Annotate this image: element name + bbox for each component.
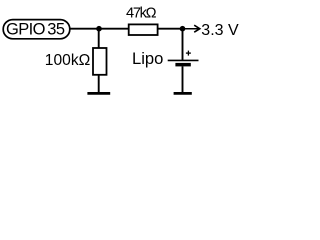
arrow head to 3.3V net	[194, 25, 200, 32]
wire resistor R1 to junction B	[158, 28, 183, 30]
svg-text:3.3 V: 3.3 V	[201, 22, 239, 39]
wire junction A down to resistor R2	[98, 29, 100, 48]
node B (junction dot)	[180, 26, 186, 32]
ground (left)	[87, 92, 110, 95]
wire battery to ground	[182, 66, 184, 93]
battery BT1 positive plate (long)	[168, 59, 199, 61]
resistor R1 47k (horizontal box)	[129, 24, 158, 35]
wire resistor R2 to ground	[98, 75, 100, 93]
svg-text:100kΩ: 100kΩ	[45, 52, 90, 69]
wire junction B down to battery	[182, 29, 184, 60]
svg-text:Lipo: Lipo	[132, 49, 163, 68]
node GPIO35 (pin label stadium)	[3, 20, 70, 39]
wire junction A to resistor R1	[99, 28, 129, 30]
resistor R2 100k (vertical box)	[93, 48, 107, 75]
battery BT1 plus sign	[186, 52, 191, 54]
wire GPIO35 to junction A	[70, 28, 99, 30]
battery BT1 negative plate (short thick)	[175, 63, 190, 67]
svg-text:GPIO35: GPIO35	[6, 21, 65, 39]
wire junction B to arrow	[183, 28, 199, 30]
node A (junction dot)	[96, 26, 102, 32]
ground (right)	[174, 92, 192, 95]
svg-text:47kΩ: 47kΩ	[126, 6, 157, 22]
